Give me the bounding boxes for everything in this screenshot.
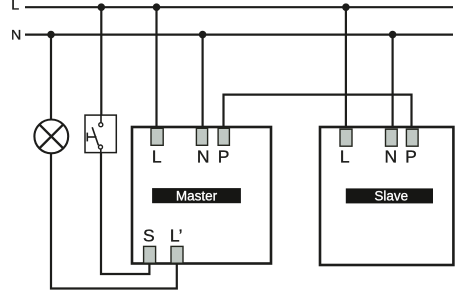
slave device box — [320, 127, 453, 265]
slave terminal L — [340, 129, 352, 146]
switch S1 actuator bar vertical — [86, 133, 88, 142]
master name plate — [152, 188, 241, 203]
slave terminal N — [386, 129, 398, 146]
switch S1 wire into top contact — [100, 115, 102, 123]
junction N-rail / slave N feed — [389, 31, 397, 39]
svg-text:L’: L’ — [170, 226, 183, 246]
master device box — [132, 127, 271, 264]
lamp E1 cross diagonal 1 — [39, 124, 63, 148]
junction N-rail / lamp feed — [47, 31, 55, 39]
junction L-rail / master L feed — [153, 3, 161, 11]
junction L-rail / slave L feed — [342, 3, 350, 11]
junction L-rail / switch feed — [98, 3, 106, 11]
wire L rail to slave L terminal — [345, 7, 347, 130]
svg-text:S: S — [143, 226, 155, 246]
wire L rail — [25, 6, 453, 8]
wire L rail to master L terminal — [155, 7, 157, 129]
master terminal L — [151, 128, 163, 145]
switch S1 top contact — [99, 123, 103, 127]
switch S1 bottom contact — [99, 145, 103, 149]
master terminal L' — [171, 246, 183, 263]
wire N rail to slave N terminal — [392, 35, 394, 130]
wire switch to master S (down, right, up) — [101, 150, 149, 275]
master terminal S — [144, 246, 156, 263]
master terminal P — [218, 128, 229, 145]
switch S1 lever — [92, 127, 98, 145]
svg-text:L: L — [152, 146, 162, 166]
lamp E1 circle — [34, 119, 68, 153]
svg-text:L: L — [340, 146, 350, 166]
junction N-rail / master N feed — [199, 31, 207, 39]
master terminal N — [196, 128, 207, 145]
switch S1 body — [85, 115, 116, 153]
svg-text:N: N — [197, 146, 210, 166]
wire L rail to switch — [100, 7, 102, 122]
lamp E1 cross diagonal 2 — [39, 124, 63, 148]
svg-text:L: L — [11, 0, 19, 13]
slave terminal P — [406, 129, 418, 146]
wire N rail to master N terminal — [202, 35, 204, 129]
svg-text:P: P — [405, 146, 417, 166]
wire N rail — [25, 33, 453, 35]
svg-text:Slave: Slave — [374, 189, 408, 204]
switch S1 wire out of bottom contact — [100, 149, 102, 154]
wire N rail to lamp — [50, 35, 52, 120]
wire lamp to master L' (down, right, up) — [51, 153, 177, 288]
svg-text:Master: Master — [176, 188, 218, 203]
svg-text:N: N — [11, 27, 21, 43]
svg-text:P: P — [218, 146, 230, 166]
switch S1 actuator bar horizontal — [87, 136, 96, 138]
svg-text:N: N — [384, 146, 397, 166]
slave name plate — [346, 188, 433, 203]
wire master P to slave P (up, right, down) — [224, 95, 412, 130]
